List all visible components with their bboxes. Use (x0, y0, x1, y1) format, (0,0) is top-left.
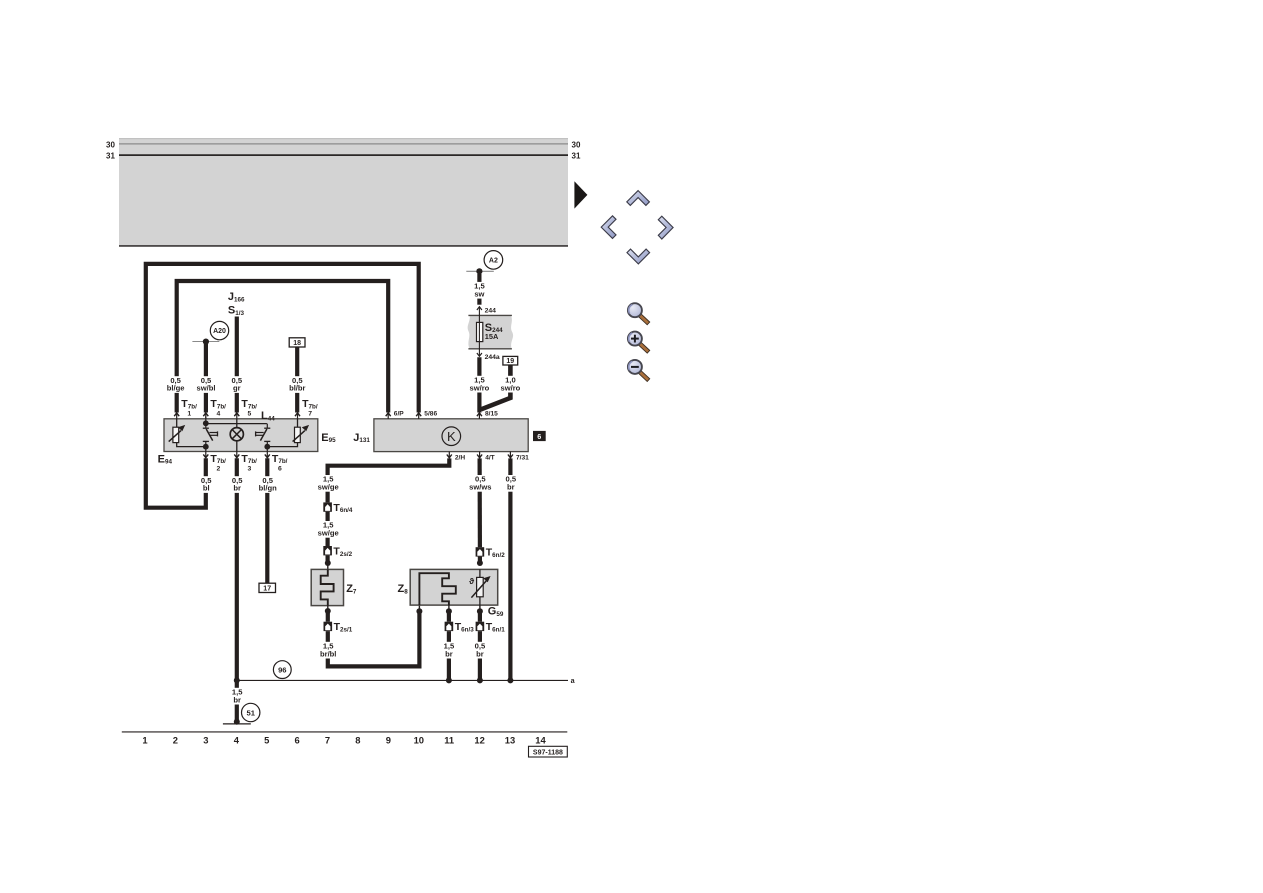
svg-text:S97-1188: S97-1188 (533, 749, 563, 756)
pin 244 arrow (477, 307, 496, 315)
svg-text:2: 2 (173, 735, 178, 746)
svg-text:ϑ: ϑ (469, 576, 474, 586)
svg-text:7/31: 7/31 (516, 455, 529, 462)
node 96 (ground connection marker) (273, 661, 291, 679)
wire terminal 31 rail (119, 154, 568, 156)
node 18 (reference box) (289, 338, 305, 347)
track number 1 (142, 735, 147, 746)
svg-text:5: 5 (248, 411, 252, 418)
label 30 left (106, 140, 115, 149)
label 0,5 br (G59) (473, 641, 486, 658)
label 1,0 sw/ro (500, 375, 522, 392)
svg-text:8: 8 (355, 735, 360, 746)
wire link pin4 to right switch (206, 423, 267, 425)
ground point 51 (223, 703, 260, 725)
wire G59 to connector T6n/1 (478, 611, 482, 622)
track number 10 (414, 735, 424, 746)
svg-text:10: 10 (414, 735, 424, 746)
connector T2s/1 (324, 621, 353, 633)
wire T6n/3 to ground line (447, 631, 451, 680)
pin T7b/6 (bottom) (265, 452, 288, 473)
svg-text:2: 2 (217, 466, 221, 473)
label 1,5 br (442, 641, 455, 658)
wire Z8 middle pin to connector T6n/3 (447, 611, 451, 622)
pin 8/15 of J131 (477, 410, 498, 418)
svg-text:sw/ge: sw/ge (318, 483, 339, 492)
svg-text:sw/bl: sw/bl (197, 384, 216, 393)
svg-text:96: 96 (278, 666, 286, 675)
label 0,5 br (7/31) (504, 475, 517, 492)
label E95 (321, 432, 336, 444)
svg-text:18: 18 (293, 340, 301, 347)
svg-text:244a: 244a (485, 354, 500, 361)
relay symbol K in J131 (442, 427, 461, 446)
label 0,5 sw/bl (195, 376, 217, 393)
pin T7b/4 (top) (203, 398, 226, 419)
svg-text:br: br (476, 649, 484, 658)
svg-text:6: 6 (294, 735, 299, 746)
svg-text:bl/gn: bl/gn (259, 484, 277, 493)
wire E94 pin T7b/6 to node 17 (265, 458, 269, 583)
label 0,5 gr (230, 376, 243, 393)
pin T7b/7 (top) (295, 398, 318, 419)
track number 11 (444, 735, 454, 746)
svg-text:A20: A20 (213, 328, 226, 335)
wire from node 19 joining pin 8/15 (481, 365, 510, 409)
svg-text:sw/ge: sw/ge (318, 529, 339, 538)
heated seat element Z8 body (410, 569, 498, 605)
wire fuse S244 to J131 pin 8/15 (477, 357, 481, 412)
track number 4 (234, 735, 240, 746)
svg-text:9: 9 (386, 735, 391, 746)
svg-text:sw/ro: sw/ro (469, 383, 489, 392)
connector T2s/2 (323, 545, 352, 557)
svg-text:14: 14 (535, 735, 546, 746)
svg-text:gr: gr (233, 384, 241, 393)
svg-text:3: 3 (203, 735, 208, 746)
junction below G59 pin (477, 605, 483, 614)
svg-text:sw/ro: sw/ro (500, 383, 520, 392)
svg-text:3: 3 (248, 466, 252, 473)
wire from node A20 to E95 pin T7b/4 (204, 344, 208, 413)
svg-text:13: 13 (505, 735, 515, 746)
svg-text:4: 4 (217, 411, 221, 418)
nav chevron left (601, 216, 616, 239)
wire T2s/2 to Z7 (326, 555, 330, 563)
label Z7 (346, 583, 357, 595)
wire outer loop: E94 pin T7b/2 to J131 pin 5/86 (146, 264, 419, 508)
label 0,5 sw/ws (469, 475, 491, 492)
temperature sensor G59 (469, 569, 490, 605)
svg-text:30: 30 (106, 140, 115, 149)
label S1/3 (228, 305, 245, 317)
svg-text:244: 244 (485, 307, 497, 314)
zoom out icon (628, 360, 649, 381)
nav chevron down (627, 249, 650, 264)
wire J131 pin 2/H to connector T6n/4 (328, 458, 450, 502)
junction T6n/1 wire / ground line (477, 677, 483, 683)
pin 7/31 of J131 (508, 452, 529, 462)
connector T6n/1 (476, 621, 506, 633)
pin 244a arrow (477, 353, 500, 361)
svg-text:15A: 15A (485, 332, 499, 341)
label 0,5 bl/br (286, 376, 308, 393)
page continuation arrow (574, 181, 587, 208)
svg-text:8/15: 8/15 (485, 410, 498, 417)
svg-text:30: 30 (572, 140, 581, 149)
label 1,5 sw/ro (469, 375, 491, 392)
wire J131 pin 7/31 to ground line (508, 458, 512, 680)
svg-text:7: 7 (308, 411, 312, 418)
label 31 left (106, 152, 115, 161)
label E94 (158, 453, 173, 465)
wire terminal 30 rail (119, 143, 568, 145)
label 1,5 br/bl (317, 641, 339, 658)
label 0,5 br (T7b/3) (231, 476, 244, 493)
svg-text:31: 31 (572, 152, 581, 161)
svg-text:7: 7 (325, 735, 330, 746)
diagram number S97-1188 (529, 746, 568, 757)
svg-text:6/P: 6/P (394, 410, 404, 417)
pin 6/P of J131 (386, 410, 405, 418)
nav chevron up (627, 191, 650, 206)
svg-text:11: 11 (444, 735, 454, 746)
label Z8 (398, 583, 409, 595)
rheostat (E94 regulator) (169, 419, 206, 447)
junction T7b/3 wire / ground line (234, 677, 240, 683)
svg-text:2/H: 2/H (455, 455, 465, 462)
label 1,5 sw (473, 282, 486, 299)
svg-text:A2: A2 (489, 258, 498, 265)
junction T6n/3 wire / ground line (446, 677, 452, 683)
wire from A2 to fuse S244 contact 244 (477, 274, 481, 305)
pin T7b/1 (top) (174, 398, 197, 419)
junction 7/31 wire / ground line (507, 677, 513, 683)
svg-text:31: 31 (106, 152, 115, 161)
label 1,5 sw/ge lower (317, 521, 339, 538)
svg-text:br: br (233, 484, 241, 493)
pin T7b/2 (bottom) (203, 452, 226, 473)
track number 12 (474, 735, 484, 746)
svg-text:4/T: 4/T (485, 455, 495, 462)
svg-text:bl/ge: bl/ge (167, 384, 185, 393)
svg-text:1: 1 (142, 735, 147, 746)
node 19 (reference box) (503, 356, 518, 365)
svg-text:bl/br: bl/br (289, 384, 305, 393)
nav chevron right (658, 216, 673, 239)
track number 7 (325, 735, 330, 746)
wire from node 18 to E95 pin T7b/7 (295, 347, 299, 413)
track number 13 (505, 735, 515, 746)
wire E94 pin T7b/3 to ground 51 (235, 458, 239, 722)
track number 6 (294, 735, 299, 746)
svg-text:6: 6 (278, 466, 282, 473)
wire T2s/1 to Z8 left pin (328, 611, 420, 666)
wire J131 pin 4/T to connector T6n/2 (478, 458, 482, 547)
indicator lamp L44 (230, 419, 243, 452)
svg-text:br: br (507, 483, 515, 492)
node 17 (reference box) (259, 583, 276, 592)
current track scale line (122, 731, 568, 733)
svg-text:51: 51 (246, 709, 255, 718)
wire T6n/2 to G59 (478, 557, 482, 563)
svg-text:19: 19 (506, 358, 514, 365)
label 0,5 bl/gn (257, 476, 279, 493)
svg-text:bl: bl (203, 484, 210, 493)
wire inner loop: E95 pin T7b/1 to J131 pin 6/P (177, 281, 389, 413)
junction below Z8 middle pin (446, 605, 452, 614)
heated backrest element Z7 (311, 563, 343, 606)
ground wire a (237, 676, 576, 685)
label J131 (353, 432, 370, 444)
seat heating control unit J131 body (374, 419, 528, 452)
svg-text:K: K (447, 429, 456, 444)
label 30 right (572, 140, 581, 149)
pin T7b/5 (top) (234, 398, 257, 419)
svg-text:sw/ws: sw/ws (469, 483, 491, 492)
zoom in icon (628, 332, 649, 353)
wire from J166/S1-3 to E95 pin T7b/5 (235, 317, 239, 413)
svg-text:6: 6 (537, 432, 541, 441)
label 31 right (572, 152, 581, 161)
switch contact (right) (256, 424, 271, 452)
svg-text:5/86: 5/86 (424, 410, 437, 417)
junction below Z8 left pin (416, 605, 422, 614)
label 1,5 sw/ge upper (317, 475, 339, 492)
rheostat (E95 regulator) (267, 419, 309, 447)
label 0,5 bl/ge (165, 376, 187, 393)
svg-text:17: 17 (263, 586, 271, 593)
zoom tool icon (628, 303, 649, 324)
heated seat regulators E94/E95 body (164, 419, 318, 452)
bus band bottom edge (119, 245, 568, 247)
switch contact (left) (203, 416, 218, 451)
label J166 (228, 291, 245, 303)
track number 3 (203, 735, 208, 746)
track number 5 (264, 735, 269, 746)
track number 9 (386, 735, 391, 746)
track number 14 (535, 735, 546, 746)
junction above G59 (477, 560, 483, 566)
pin T7b/3 (bottom) (234, 452, 257, 473)
connector T6n/2 (476, 547, 506, 559)
wire Z7 to connector T2s/1 (326, 611, 330, 622)
pin 2/H of J131 (447, 452, 466, 462)
svg-text:12: 12 (474, 735, 484, 746)
node 6 (black reference box) (533, 431, 546, 441)
label G59 (488, 605, 504, 617)
track number 2 (173, 735, 178, 746)
wire T6n/4 to T2s/2 (326, 512, 330, 546)
label 0,5 bl (200, 476, 213, 493)
node A2 (plus connection) (466, 251, 502, 275)
svg-text:5: 5 (264, 735, 269, 746)
label L44 (261, 410, 275, 422)
pin 4/T of J131 (477, 452, 495, 462)
pin 5/86 of J131 (416, 410, 437, 418)
fuse S244 15A (468, 307, 513, 356)
track number 8 (355, 735, 360, 746)
junction below Z7 (325, 606, 331, 614)
connector T6n/3 (445, 621, 475, 633)
junction above Z7 (325, 560, 331, 566)
label 1,5 br (ground) (231, 687, 244, 704)
svg-text:4: 4 (234, 735, 240, 746)
wire T6n/1 to ground line (478, 631, 482, 680)
node A20 (plus connection) (192, 321, 228, 344)
svg-text:br: br (445, 649, 453, 658)
connector T6n/4 (323, 502, 353, 514)
svg-text:br: br (233, 695, 241, 704)
bus bar band (terminals 30/31) (119, 138, 568, 246)
svg-text:sw: sw (474, 289, 484, 298)
svg-text:br/bl: br/bl (320, 649, 336, 658)
svg-text:1: 1 (187, 411, 191, 418)
